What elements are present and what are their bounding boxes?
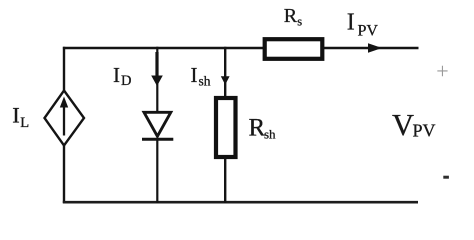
wire shunt branch upper: [224, 47, 226, 97]
wire bottom horizontal (ground return node): [63, 201, 418, 204]
svg-text:PV: PV: [358, 22, 379, 39]
svg-text:D: D: [121, 73, 131, 89]
current source IL (diamond dependent-source symbol): [45, 91, 85, 146]
wire diode branch lower: [156, 139, 158, 203]
svg-text:I: I: [12, 103, 20, 128]
I_sh current arrow: [221, 76, 230, 85]
svg-text:R: R: [249, 114, 266, 141]
resistor Rsh: [216, 98, 236, 157]
terminal minus: [443, 176, 449, 179]
wire shunt branch lower: [224, 157, 226, 203]
wire diode branch upper: [156, 47, 158, 113]
wire left vertical lower (IL source to bottom node): [63, 144, 65, 203]
I_D current arrow: [151, 52, 163, 86]
resistor Rs: [265, 39, 323, 59]
I_PV output current arrowhead: [368, 43, 382, 53]
svg-text:R: R: [284, 5, 298, 27]
svg-text:I: I: [347, 10, 355, 36]
wire top-right horizontal (Rs to output): [323, 47, 419, 50]
wire left vertical upper (top node to IL source): [63, 47, 65, 92]
svg-text:V: V: [392, 108, 414, 142]
diode D: [142, 112, 173, 139]
svg-text:I: I: [113, 63, 120, 87]
svg-text:sh: sh: [264, 127, 276, 142]
svg-text:PV: PV: [413, 121, 436, 141]
svg-text:s: s: [297, 15, 302, 29]
svg-text:+: +: [436, 59, 448, 84]
svg-text:I: I: [191, 63, 198, 87]
svg-text:L: L: [20, 115, 29, 131]
svg-text:sh: sh: [199, 74, 211, 89]
wire top-left horizontal (node between IL, D, Rsh, Rs): [63, 47, 264, 49]
